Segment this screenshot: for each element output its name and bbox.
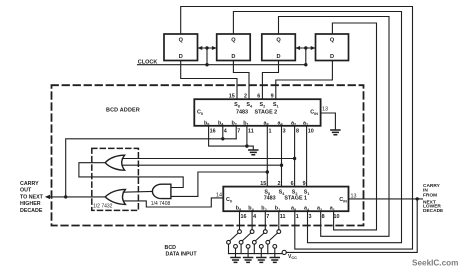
wire stage1 CIN carry-in line — [349, 198, 423, 200]
wire FF4 D input from stage2 S1 pin 9 — [276, 61, 333, 100]
svg-text:7: 7 — [266, 214, 269, 220]
ground for SW2 — [244, 258, 253, 263]
wire stage2 pin 16 b8 to ground node — [209, 126, 247, 146]
svg-text:CLOCK: CLOCK — [138, 59, 158, 65]
pin numbers stage 1 top — [260, 181, 305, 187]
wire stage2 pin 11 b1 down — [246, 126, 248, 146]
svg-text:D: D — [231, 54, 235, 60]
node carry out junction — [64, 195, 67, 198]
wire carry-in branch down to Vcc terminal — [286, 199, 417, 253]
wire S4 tap to OR1 input — [122, 164, 281, 166]
svg-text:BCD: BCD — [165, 245, 177, 251]
switch SW2 — [239, 230, 254, 258]
wire correction line to b4/b2 — [66, 139, 237, 197]
OR gate U3A 1/2 7432 (points left) — [105, 155, 124, 170]
node b4 correction junction — [221, 137, 224, 140]
svg-text:4: 4 — [224, 129, 227, 135]
svg-text:DECADE: DECADE — [20, 208, 43, 214]
svg-text:1/2 7432: 1/2 7432 — [93, 204, 113, 210]
wire stage2 a1 to stage1 S1 — [306, 126, 308, 187]
svg-text:9: 9 — [303, 181, 306, 187]
ground for stage2 b8/b1 — [249, 150, 258, 155]
switch SW3 — [252, 230, 267, 258]
node clock tee1 bottom — [205, 63, 208, 66]
wire S8 tap to AND input — [172, 172, 268, 196]
wire stage2 pin 7 b2 down — [235, 126, 237, 139]
node S8 tap — [266, 170, 269, 173]
svg-text:6: 6 — [291, 181, 294, 187]
svg-text:7: 7 — [237, 129, 240, 135]
ground for SW3 — [257, 258, 266, 263]
pin numbers stage 2 bottom — [210, 129, 314, 135]
arrowhead clock into FF4 — [311, 46, 316, 50]
BCD adder outer dashed box — [52, 85, 364, 225]
node carry-in branch — [416, 197, 419, 200]
svg-text:DECADE: DECADE — [423, 208, 444, 214]
wire stage2 a2 to stage1 S2 — [294, 126, 296, 187]
ground for SW4 — [270, 258, 279, 263]
svg-text:15: 15 — [229, 94, 235, 100]
IC U2 7483 STAGE 2 — [194, 94, 320, 135]
svg-text:FROM: FROM — [423, 192, 437, 198]
wire jog to ground — [247, 146, 253, 150]
wire FF2 Q feedback to stage1 pin 3 (a4) — [233, 12, 401, 243]
node S2 tap — [293, 157, 296, 160]
pin numbers stage 1 bottom — [241, 214, 340, 220]
flip-flop FF3 — [262, 34, 296, 61]
IC U1 7483 STAGE 1 — [216, 181, 357, 220]
svg-text:D: D — [179, 54, 183, 60]
flip-flop FF1 — [164, 34, 198, 61]
AND gate U4 1/4 7408 (points left) — [152, 184, 171, 198]
svg-text:13: 13 — [322, 107, 328, 113]
wire OR2 input2 from stage1 C0 pin 14 — [123, 198, 223, 207]
svg-text:HIGHER: HIGHER — [20, 201, 41, 207]
svg-text:2: 2 — [278, 181, 281, 187]
svg-text:Q: Q — [276, 38, 281, 44]
svg-text:10: 10 — [308, 129, 314, 135]
svg-text:16: 16 — [210, 129, 216, 135]
svg-text:9: 9 — [271, 94, 274, 100]
wire stage2 pin 13 CIN to ground — [321, 113, 336, 130]
svg-text:1/4 7408: 1/4 7408 — [151, 201, 171, 207]
wire S2 tap to OR1 input — [122, 158, 294, 160]
pin numbers stage 2 top — [229, 94, 274, 100]
label BCD DATA INPUT — [165, 245, 198, 258]
svg-text:15: 15 — [260, 181, 266, 187]
wire AND output to OR2 input — [123, 190, 152, 193]
svg-text:4: 4 — [253, 214, 256, 220]
node clock tee1 top — [205, 46, 208, 49]
svg-text:2: 2 — [244, 94, 247, 100]
data input switches: stems from stage1 b pins — [240, 211, 279, 230]
svg-text:TO NEXT: TO NEXT — [20, 194, 44, 200]
svg-text:Q: Q — [231, 38, 236, 44]
svg-text:D: D — [276, 54, 280, 60]
ground for stage2 CIN — [331, 130, 340, 135]
svg-text:8: 8 — [296, 129, 299, 135]
node b8-b1 ground junction — [245, 144, 248, 147]
7432 inner dashed box — [92, 148, 139, 210]
OR gate U3B 1/2 7432 (points left) — [105, 189, 125, 204]
svg-text:1: 1 — [269, 129, 272, 135]
svg-text:Q: Q — [179, 38, 184, 44]
arrowhead clock into FF2 — [212, 46, 217, 50]
wire stage2 a4 to stage1 S4 — [281, 126, 283, 187]
node S4 tap — [280, 164, 283, 167]
wire CLOCK line — [138, 64, 306, 66]
svg-text:CARRY: CARRY — [20, 181, 39, 187]
svg-text:Q: Q — [330, 38, 335, 44]
svg-text:16: 16 — [241, 214, 247, 220]
flip-flop FF4 — [316, 34, 349, 61]
wire FF2 D input from stage2 S4 pin 2 — [233, 61, 249, 100]
svg-text:11: 11 — [280, 214, 286, 220]
switch SW1 — [227, 230, 242, 258]
svg-text:10: 10 — [334, 214, 340, 220]
ground for SW1 — [231, 258, 240, 263]
arrowhead clock into FF3 — [295, 46, 300, 50]
wire FF4 Q feedback to stage1 pin 10 (a1) — [332, 23, 376, 230]
svg-text:8: 8 — [322, 214, 325, 220]
wire stage2 pin 4 b4 down — [222, 126, 224, 139]
svg-text:3: 3 — [283, 129, 286, 135]
svg-text:STAGE 1: STAGE 1 — [284, 196, 307, 202]
svg-text:STAGE 2: STAGE 2 — [255, 110, 278, 116]
wire OR1 output to AND input — [79, 163, 183, 188]
svg-text:3: 3 — [309, 214, 312, 220]
arrowhead clock into FF1 — [198, 46, 203, 50]
wire FF1 Q feedback to stage1 pin 1 (a8) — [181, 7, 413, 250]
node clock tee2 bottom — [304, 63, 307, 66]
terminal Vcc circle — [282, 250, 286, 254]
wire FF1 D input from stage2 S8 pin 15 — [181, 61, 237, 100]
wire stage2 a8 to stage1 S8 — [266, 126, 268, 187]
wire switch common rail to Vcc — [229, 253, 283, 255]
label CARRY OUT TO NEXT HIGHER DECADE — [20, 181, 44, 214]
svg-text:D: D — [330, 54, 334, 60]
switch SW4 — [266, 230, 281, 258]
svg-text:DATA INPUT: DATA INPUT — [166, 252, 198, 258]
svg-text:14: 14 — [216, 192, 222, 198]
svg-text:6: 6 — [257, 94, 260, 100]
wire clock tee FF3/FF4 — [295, 48, 315, 65]
wire FF3 Q feedback to stage1 pin 8 (a2) — [279, 17, 390, 237]
svg-text:11: 11 — [248, 129, 254, 135]
arrowhead carry out — [45, 195, 50, 199]
svg-text:1: 1 — [296, 214, 299, 220]
wire clock tee FF1/FF2 — [198, 48, 217, 65]
flip-flop FF2 — [217, 34, 251, 61]
svg-text:SeekIC.com: SeekIC.com — [412, 259, 458, 268]
wire OR2 output carry out — [48, 196, 105, 198]
svg-text:OUT: OUT — [20, 188, 32, 194]
node clock tee2 top — [304, 46, 307, 49]
svg-text:BCD ADDER: BCD ADDER — [106, 108, 140, 114]
svg-text:7483: 7483 — [264, 196, 276, 202]
label CARRY IN FROM NEXT LOWER DECADE — [423, 183, 444, 214]
wire FF3 D input from stage2 S2 pin 6 — [262, 61, 278, 100]
svg-text:7483: 7483 — [236, 110, 248, 116]
